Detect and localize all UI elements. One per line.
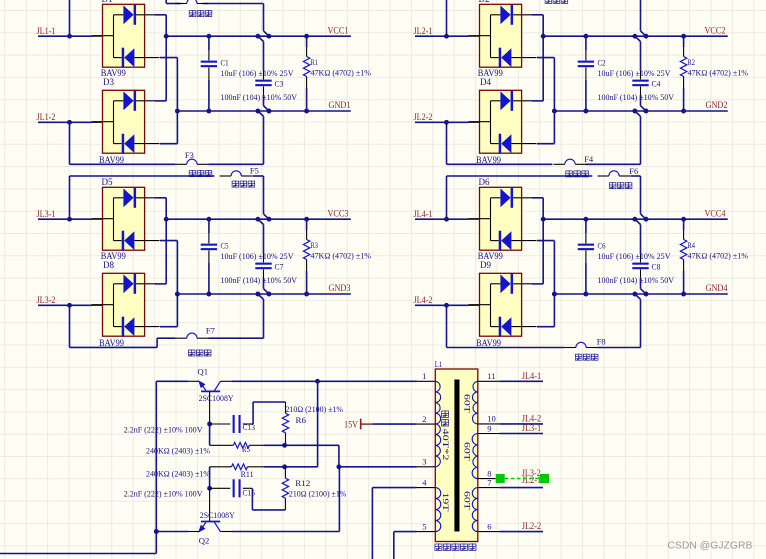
resistor R4 47K (683, 219, 685, 294)
svg-text:2: 2 (422, 414, 426, 424)
junction JL3-1 (67, 217, 72, 222)
svg-text:Q2: Q2 (199, 535, 210, 545)
fuse F3 (175, 163, 186, 165)
resistor R1 47K (306, 36, 308, 111)
junction emitter rail (154, 529, 159, 534)
fuse F1 (cut at top) (175, 3, 186, 5)
resistor R12 210 ohm (284, 467, 286, 510)
wire JL1-1 riser to top edge (69, 0, 71, 36)
capacitor C5 10uF (208, 219, 210, 294)
svg-text:C5: C5 (221, 240, 229, 250)
label short-circuit point F4 (566, 170, 573, 177)
wire GND4 rail (554, 293, 727, 295)
wire GND2 rail (554, 110, 727, 112)
junction pin1 line (315, 379, 320, 384)
label short-circuit point F5 (232, 181, 239, 188)
svg-text:C15: C15 (243, 487, 256, 497)
svg-text:D3: D3 (103, 77, 114, 87)
short-circuit jumper on VCC3 (264, 214, 270, 219)
diode package D3 (BAV99) (92, 90, 160, 153)
svg-text:6: 6 (487, 521, 491, 531)
wire JL2-1 input (415, 35, 480, 37)
junction R4 bottom (681, 292, 686, 297)
svg-text:2SC1008Y: 2SC1008Y (200, 510, 235, 520)
diode package D2 (BAV99) (469, 4, 537, 67)
label short-circuit point F6 (609, 182, 616, 189)
svg-text:F5: F5 (250, 166, 260, 176)
wire Q1 collector to transformer pin 1 (221, 380, 436, 382)
svg-text:VCC1: VCC1 (328, 26, 349, 36)
junction C5 top (206, 217, 211, 222)
fuse F8 (565, 347, 576, 349)
svg-text:47KΩ (4702) ±1%: 47KΩ (4702) ±1% (311, 251, 372, 261)
label short-circuit point F1 (189, 10, 196, 17)
wire C15 to R12 bottom (252, 488, 285, 510)
short-circuit jumper on GND4 (641, 289, 647, 294)
short-circuit jumper on GND1 (264, 106, 270, 111)
diode package D4 (BAV99) (469, 90, 537, 153)
fuse F6 (598, 175, 609, 177)
wire JL3-1 input (38, 218, 103, 220)
svg-text:1: 1 (422, 371, 426, 381)
wire pin 6 to net JL2-2 (478, 531, 543, 533)
svg-text:CSDN @GJZGRB: CSDN @GJZGRB (667, 541, 752, 552)
capacitor C3 100nF (263, 42, 265, 106)
wire JL1-2 drop to F3 line (69, 122, 71, 164)
junction JL4-2 (444, 303, 449, 308)
svg-text:D2: D2 (479, 0, 490, 4)
svg-text:11: 11 (487, 371, 495, 381)
wire pin 11 to net JL4-1 (478, 380, 543, 382)
junction R2 top (681, 34, 686, 39)
svg-text:BAV99: BAV99 (476, 338, 501, 348)
label short-circuit point F3 (189, 170, 196, 177)
capacitor C2 10uF (585, 36, 587, 111)
winding pins7-6 (472, 488, 478, 532)
svg-text:3: 3 (422, 457, 426, 467)
diode package D9 (BAV99) (469, 273, 537, 336)
capacitor C4 100nF (640, 42, 642, 106)
wire F3 line (70, 163, 264, 165)
svg-text:47KΩ (4702) ±1%: 47KΩ (4702) ±1% (688, 251, 749, 261)
wire Q2 base lead (209, 488, 211, 521)
junction on VCC4 line (541, 217, 546, 222)
junction C6 top (583, 217, 588, 222)
wire emitter rail left (0, 381, 156, 553)
junction JL2-2 (444, 120, 449, 125)
label short-circuit point F7 (188, 349, 195, 356)
svg-text:VCC4: VCC4 (705, 209, 726, 219)
winding label 40T*2 rotated (441, 410, 450, 460)
svg-text:L1: L1 (435, 359, 443, 369)
svg-text:JL4-2: JL4-2 (522, 413, 542, 423)
wire JL3-2 input (38, 304, 103, 306)
wire top cut row to VCC1 jumper (166, 0, 263, 31)
svg-text:5: 5 (422, 521, 426, 531)
winding pins11-10 (472, 381, 477, 424)
svg-text:R5: R5 (242, 444, 250, 454)
junction Q1 base node (207, 422, 212, 427)
svg-text:2.2nF (222) ±10% 100V: 2.2nF (222) ±10% 100V (124, 489, 204, 499)
wire D5/D8 cathode rail to VCC3 (155, 198, 166, 284)
junction R1 top (304, 34, 309, 39)
wire D6/D9 cathode rail to VCC4 (532, 198, 543, 284)
wire JL2-2 input (415, 121, 480, 123)
svg-text:10: 10 (487, 414, 496, 424)
svg-text:D5: D5 (102, 177, 113, 187)
svg-text:60T: 60T (463, 394, 472, 413)
svg-text:JL3-2: JL3-2 (37, 295, 56, 305)
svg-text:F7: F7 (206, 326, 216, 336)
wire D6/D9 anode rail to GND4 (537, 241, 554, 327)
junction on GND3 line (175, 292, 180, 297)
svg-text:210Ω (2100) ±1%: 210Ω (2100) ±1% (286, 404, 344, 414)
wire D1/D3 anode rail to GND1 (160, 58, 177, 144)
winding pins1-2 (435, 381, 440, 424)
capacitor C8 100nF (640, 225, 642, 289)
svg-text:GND3: GND3 (329, 283, 351, 293)
svg-text:JL3-2: JL3-2 (522, 468, 541, 478)
wire pin 4 drop (372, 488, 435, 559)
short-circuit jumper on VCC1 (264, 31, 270, 36)
wire GND1 rail (177, 110, 350, 112)
diode package D1 (BAV99) (92, 4, 160, 67)
junction R3 top (304, 217, 309, 222)
junction on GND2 line (552, 109, 557, 114)
wire C13 to R6 top (253, 402, 285, 424)
diode package D5 (BAV99) (92, 187, 160, 250)
svg-text:JL3-1: JL3-1 (37, 209, 56, 219)
wire pin 7 to net JL2-1 (478, 487, 543, 489)
junction on GND4 line (552, 292, 557, 297)
svg-text:JL4-1: JL4-1 (522, 371, 542, 381)
resistor R11 240K (210, 466, 285, 468)
junction R2 bottom (681, 109, 686, 114)
wire 15V to pin 2 (372, 423, 435, 425)
svg-text:VCC2: VCC2 (705, 26, 726, 36)
svg-text:60T: 60T (463, 442, 472, 461)
fuse F4 (554, 163, 565, 165)
junction pin3 node (336, 464, 341, 469)
svg-text:R2: R2 (688, 57, 696, 67)
junction on VCC1 line (164, 34, 169, 39)
wire Q2 emitter (156, 531, 199, 533)
svg-text:C3: C3 (275, 79, 285, 89)
wire JL4-2 drop to F8 line (446, 305, 448, 347)
svg-text:240KΩ (2403) ±1%: 240KΩ (2403) ±1% (146, 446, 210, 456)
fuse F5 (220, 175, 231, 177)
wire JL2-1 riser to top edge (446, 0, 448, 36)
wire F4 line (447, 163, 641, 165)
svg-text:2SC1008Y: 2SC1008Y (199, 393, 234, 403)
svg-text:10uF (106) ±10% 25V: 10uF (106) ±10% 25V (221, 68, 295, 78)
junction on VCC2 line (541, 34, 546, 39)
resistor R5 240K (210, 444, 285, 446)
transformer L1 body (435, 369, 478, 542)
svg-text:JL2-1: JL2-1 (414, 26, 433, 36)
svg-text:R12: R12 (295, 478, 310, 488)
svg-text:BAV99: BAV99 (99, 155, 124, 165)
svg-text:240KΩ (2403) ±1%: 240KΩ (2403) ±1% (146, 469, 210, 479)
svg-text:GND2: GND2 (706, 100, 728, 110)
svg-text:JL2-2: JL2-2 (414, 112, 433, 122)
transistor Q2 2SC1008Y (198, 522, 220, 533)
svg-text:R11: R11 (241, 469, 254, 479)
svg-text:C1: C1 (221, 57, 229, 67)
wire JL4-2 input (415, 304, 480, 306)
svg-text:210Ω (2100) ±1%: 210Ω (2100) ±1% (289, 489, 347, 499)
svg-text:C4: C4 (652, 79, 662, 89)
junction on GND1 line (175, 109, 180, 114)
wire F8 line (447, 347, 641, 349)
junction Q2 base node (207, 486, 212, 491)
winding pins9-8 (472, 434, 478, 479)
wire VCC3 rail (166, 218, 351, 220)
junction C1 top (206, 34, 211, 39)
resistor R6 210 ohm (285, 402, 287, 445)
resistor R3 47K (306, 219, 308, 294)
svg-text:C7: C7 (275, 262, 285, 272)
svg-text:10uF (106) ±10% 25V: 10uF (106) ±10% 25V (598, 68, 672, 78)
svg-text:D1: D1 (102, 0, 113, 4)
svg-text:F3: F3 (185, 150, 195, 160)
wire Q1 base lead (209, 392, 211, 424)
wire JL2-2 drop to F4 line (446, 122, 448, 164)
svg-text:10uF (106) ±10% 25V: 10uF (106) ±10% 25V (221, 251, 295, 261)
svg-text:JL2-2: JL2-2 (522, 521, 542, 531)
wire VCC4 rail (543, 218, 728, 220)
transformer L1 core (454, 380, 459, 532)
wire rail between GND4 jumper and F8 line (640, 299, 642, 347)
wire R5 line from Q1 base node (209, 424, 211, 445)
capacitor C7 100nF (263, 225, 265, 289)
wire JL3-2 drop to F7 line (69, 305, 71, 347)
junction JL1-1 (67, 34, 72, 39)
label short-circuit point F8 (575, 354, 582, 361)
svg-text:D8: D8 (103, 260, 114, 270)
svg-text:R4: R4 (688, 240, 696, 250)
junction C2 bottom (583, 109, 588, 114)
wire pin 9 to net JL3-1 (478, 433, 543, 435)
svg-text:R6: R6 (296, 415, 307, 425)
transistor Q1 2SC1008Y (198, 380, 220, 391)
diode package D8 (BAV99) (92, 273, 160, 336)
label short-circuit point F2 (cut) (545, 0, 552, 4)
wire F7 line with jog (70, 338, 264, 347)
svg-text:15V: 15V (344, 420, 358, 430)
junction R6 bottom / R5 right (282, 443, 287, 448)
capacitor C6 10uF (585, 219, 587, 294)
svg-text:JL4-2: JL4-2 (414, 295, 433, 305)
junction C2 top (583, 34, 588, 39)
wire R5 line to Q2 collector node (285, 445, 339, 467)
svg-text:JL1-1: JL1-1 (37, 26, 56, 36)
svg-text:100nF (104) ±10% 50V: 100nF (104) ±10% 50V (221, 275, 298, 285)
winding pins2-3 (435, 424, 440, 467)
svg-text:100nF (104) ±10% 50V: 100nF (104) ±10% 50V (598, 275, 675, 285)
wire pin 10 to net JL4-2 (478, 423, 543, 425)
svg-text:60T: 60T (463, 491, 472, 510)
wire D5/D8 anode rail to GND3 (160, 241, 177, 327)
svg-text:VCC3: VCC3 (328, 209, 349, 219)
short-circuit jumper on VCC2 (641, 31, 647, 36)
svg-text:C6: C6 (598, 240, 606, 250)
wire JL4-1 input (415, 218, 480, 220)
wire F5 line JL3-1 to VCC3 jumper (70, 176, 264, 219)
wire GND3 rail (177, 293, 350, 295)
junction JL2-1 (444, 34, 449, 39)
svg-text:47KΩ (4702) ±1%: 47KΩ (4702) ±1% (311, 68, 372, 78)
svg-text:2.2nF (222) ±10% 100V: 2.2nF (222) ±10% 100V (124, 424, 204, 434)
svg-text:C2: C2 (598, 57, 606, 67)
junction JL3-2 (67, 303, 72, 308)
svg-text:47KΩ (4702) ±1%: 47KΩ (4702) ±1% (688, 68, 749, 78)
wire Q1 emitter (156, 380, 199, 382)
svg-text:F6: F6 (629, 166, 639, 176)
junction on VCC3 line (164, 217, 169, 222)
wire VCC1 rail (166, 35, 351, 37)
fuse F7 (175, 337, 186, 339)
wire F6 line JL4-1 to VCC4 jumper (447, 176, 641, 219)
junction R11 right / R12 top (282, 464, 287, 469)
svg-text:C8: C8 (652, 262, 662, 272)
short-circuit jumper on VCC4 (641, 214, 647, 219)
wire Q2 collector to pin3 node (221, 467, 340, 532)
wire D2/D4 cathode rail to VCC2 (532, 15, 543, 101)
svg-text:100nF (104) ±10% 50V: 100nF (104) ±10% 50V (598, 92, 675, 102)
wire pin 3 line (339, 466, 435, 468)
junction C5 bottom (206, 292, 211, 297)
highlight dashed link (505, 478, 540, 480)
svg-text:D6: D6 (479, 177, 490, 187)
svg-text:BAV99: BAV99 (476, 155, 501, 165)
wire R11 line from Q2 base node (209, 467, 211, 489)
power port 15V (361, 419, 373, 430)
wire rail between GND3 jumper and F7 line (263, 299, 265, 338)
resistor R2 47K (683, 36, 685, 111)
svg-text:JL4-1: JL4-1 (414, 209, 433, 219)
wire JL1-2 input (38, 121, 103, 123)
junction R1 bottom (304, 109, 309, 114)
svg-text:10uF (106) ±10% 25V: 10uF (106) ±10% 25V (598, 251, 672, 261)
svg-text:40T*2: 40T*2 (441, 429, 450, 461)
wire D2/D4 anode rail to GND2 (537, 58, 554, 144)
wire VCC2 rail (543, 35, 728, 37)
svg-text:F8: F8 (597, 337, 607, 347)
svg-text:D4: D4 (480, 77, 491, 87)
wire branch down to R11/R12 node (285, 381, 318, 467)
svg-text:GND1: GND1 (329, 100, 351, 110)
wire pin 5 drop (394, 532, 436, 559)
junction R3 bottom (304, 292, 309, 297)
short-circuit jumper on GND2 (641, 106, 647, 111)
wire pin 8 stub (478, 478, 496, 480)
highlight square left (selected net JL3-2) (496, 474, 505, 483)
svg-text:D9: D9 (480, 260, 491, 270)
svg-text:JL1-2: JL1-2 (37, 112, 56, 122)
junction C6 bottom (583, 292, 588, 297)
diode package D6 (BAV99) (469, 187, 537, 250)
junction JL4-1 (444, 217, 449, 222)
svg-text:100nF (104) ±10% 50V: 100nF (104) ±10% 50V (221, 92, 298, 102)
wire D1/D3 cathode rail to VCC1 (155, 15, 166, 101)
wire rail between GND1 jumper and F3 line (263, 116, 265, 164)
svg-text:Q1: Q1 (198, 366, 209, 376)
svg-text:JL3-1: JL3-1 (522, 423, 542, 433)
capacitor C1 10uF (208, 36, 210, 111)
short-circuit jumper on GND3 (264, 289, 270, 294)
svg-text:R1: R1 (311, 57, 319, 67)
capacitor C15 2.2nF (210, 487, 253, 489)
svg-text:19T: 19T (441, 493, 450, 512)
svg-text:R3: R3 (311, 240, 319, 250)
junction C1 bottom (206, 109, 211, 114)
capacitor C13 2.2nF (210, 423, 254, 425)
svg-text:BAV99: BAV99 (99, 338, 124, 348)
value transformer (Chinese) (435, 543, 442, 550)
junction JL1-2 (67, 120, 72, 125)
wire rail above VCC2 jumper to top edge (640, 0, 642, 31)
wire JL1-1 input (38, 35, 103, 37)
svg-text:F4: F4 (584, 154, 594, 164)
highlight square right (selected net JL3-2) (540, 474, 549, 483)
winding pins4-5 (435, 488, 441, 532)
wire rail between GND2 jumper and F4 line (640, 116, 642, 164)
svg-text:9: 9 (487, 423, 491, 433)
svg-text:GND4: GND4 (706, 283, 728, 293)
junction R4 top (681, 217, 686, 222)
